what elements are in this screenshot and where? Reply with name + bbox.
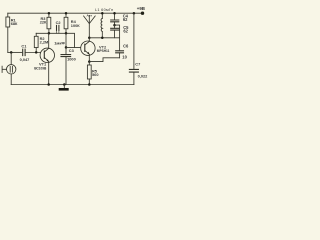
svg-text:62: 62 <box>123 17 128 22</box>
svg-text:2,2М: 2,2М <box>40 39 49 44</box>
node R3 top <box>48 12 51 15</box>
transistor VT1 <box>40 48 54 62</box>
wire osc node <box>89 37 119 39</box>
terminal +9V <box>141 12 144 15</box>
svg-text:C3: C3 <box>69 48 75 53</box>
svg-text:C1: C1 <box>21 43 27 48</box>
node L1 bottom <box>101 36 104 39</box>
svg-text:0,047: 0,047 <box>20 57 30 62</box>
svg-text:68К: 68К <box>11 21 18 26</box>
svg-text:62: 62 <box>123 29 128 34</box>
node VT2 emitter <box>88 60 91 63</box>
node R4 bottom <box>65 32 68 35</box>
capacitor C2 <box>57 25 59 30</box>
node C3 top / VT2 base <box>65 46 68 49</box>
wire mid collector bus <box>36 33 74 47</box>
resistor R1 <box>7 13 9 17</box>
node VT1 emitter bus <box>47 83 50 86</box>
svg-text:1мкФ: 1мкФ <box>54 40 65 45</box>
capacitor C4 <box>114 13 116 20</box>
node R5 bus <box>88 83 91 86</box>
node antenna / VT2 collector <box>88 37 91 40</box>
svg-text:22К: 22К <box>40 20 47 25</box>
svg-text:+9В: +9В <box>137 6 145 11</box>
svg-text:L1 60мГн: L1 60мГн <box>95 7 113 12</box>
node C7 top <box>133 12 136 15</box>
capacitor C3 <box>65 47 67 54</box>
node C4-C5 tap <box>113 24 116 27</box>
wire emitter to C6 <box>89 58 119 62</box>
capacitor C5 <box>114 25 116 28</box>
capacitor C7 <box>133 13 135 69</box>
inductor L1 <box>101 13 103 18</box>
transistor VT2 <box>81 41 95 55</box>
svg-text:Ант: Ант <box>87 14 93 18</box>
wire ground bus <box>11 84 134 86</box>
resistor R4 <box>65 13 67 17</box>
resistor R5 <box>88 62 90 65</box>
svg-text:1000: 1000 <box>67 57 76 62</box>
node C3 bus <box>63 83 66 86</box>
svg-text:MPSH11: MPSH11 <box>97 49 110 53</box>
svg-text:ВС109В: ВС109В <box>34 66 47 70</box>
svg-text:100К: 100К <box>71 23 80 28</box>
antenna <box>88 15 90 37</box>
svg-text:10: 10 <box>122 54 127 59</box>
wire R4 to base node <box>65 33 67 47</box>
wire top +9V rail <box>8 12 143 14</box>
node mic junction <box>10 51 13 54</box>
capacitor C1 <box>23 49 25 55</box>
svg-text:560: 560 <box>92 72 99 77</box>
node C4 top <box>113 12 116 15</box>
svg-text:0,022: 0,022 <box>138 74 149 79</box>
node R2-base <box>35 51 38 54</box>
wire VT2 base <box>66 46 85 48</box>
node R3 bottom / VT1 collector <box>48 32 51 35</box>
node L1 top <box>101 12 104 15</box>
node R4 top <box>65 12 68 15</box>
resistor R2 <box>35 33 37 36</box>
capacitor C6 <box>116 51 124 53</box>
wire R1/mic/C1 node <box>8 51 22 53</box>
svg-text:C2: C2 <box>56 20 62 25</box>
resistor R3 <box>48 13 50 17</box>
wire tap to C6 <box>115 25 120 51</box>
svg-text:C7: C7 <box>135 61 140 66</box>
microphone BM1 <box>10 52 12 64</box>
ground <box>63 85 65 89</box>
svg-text:C6: C6 <box>123 43 129 48</box>
